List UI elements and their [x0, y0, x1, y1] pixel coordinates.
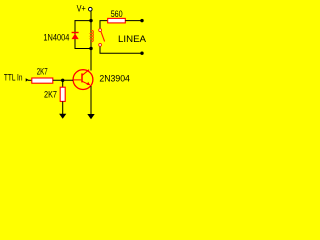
svg-text:560: 560: [111, 9, 123, 19]
wire R2 to ground: [62, 101, 64, 116]
transistor Q1 base lead: [73, 79, 81, 81]
diode D1 1N4004 (triangle): [72, 34, 79, 40]
wire 560 to LINEA top terminal: [125, 20, 142, 22]
junction top (coil/diode/V+): [89, 19, 92, 22]
ground (emitter): [87, 114, 94, 119]
relay contact bottom pole: [99, 44, 102, 47]
relay coil K1: [91, 30, 93, 41]
wire contact bottom to LINEA: [100, 47, 142, 54]
wire junction to R2: [62, 80, 64, 87]
wire bottom rail: [75, 48, 92, 50]
relay contact top pole: [99, 29, 102, 32]
svg-text:LINEA: LINEA: [118, 34, 146, 44]
junction bottom (coil/diode/collector): [89, 47, 92, 50]
wire diode branch: [74, 20, 76, 48]
wire coil branch: [90, 21, 92, 49]
wire input to R1: [28, 79, 32, 81]
terminal LINEA top: [140, 19, 143, 22]
svg-text:2K7: 2K7: [37, 67, 48, 77]
diode D1 1N4004 (cathode bar): [72, 32, 79, 34]
svg-text:2K7: 2K7: [44, 89, 57, 99]
transistor Q1 emitter arrow: [87, 82, 91, 85]
wire V+ down to top rail: [90, 11, 92, 21]
transistor Q1 2N3904 (body circle): [73, 70, 93, 90]
junction base: [61, 79, 64, 82]
wire top rail: [75, 20, 92, 22]
transistor Q1 emitter lead: [82, 81, 90, 85]
wire collector: [90, 49, 92, 71]
svg-text:1N4004: 1N4004: [43, 33, 69, 43]
resistor R3 560: [108, 18, 126, 23]
terminal LINEA bottom: [140, 52, 143, 55]
wire base rail: [53, 79, 73, 81]
terminal V+: [89, 7, 93, 11]
input port arrow: [26, 78, 29, 81]
wire emitter to ground: [90, 86, 92, 117]
transistor Q1 collector lead: [82, 70, 89, 76]
svg-text:TTL In: TTL In: [4, 73, 23, 83]
resistor R1 2K7 (horizontal): [32, 78, 53, 83]
relay contact arm: [101, 32, 105, 42]
svg-text:2N3904: 2N3904: [99, 74, 129, 84]
svg-text:V+: V+: [77, 3, 86, 13]
wire contact top corner: [100, 21, 108, 29]
resistor R2 2K7 (vertical): [60, 87, 65, 101]
ground (R2): [59, 114, 66, 119]
transistor Q1 base bar: [81, 73, 83, 82]
